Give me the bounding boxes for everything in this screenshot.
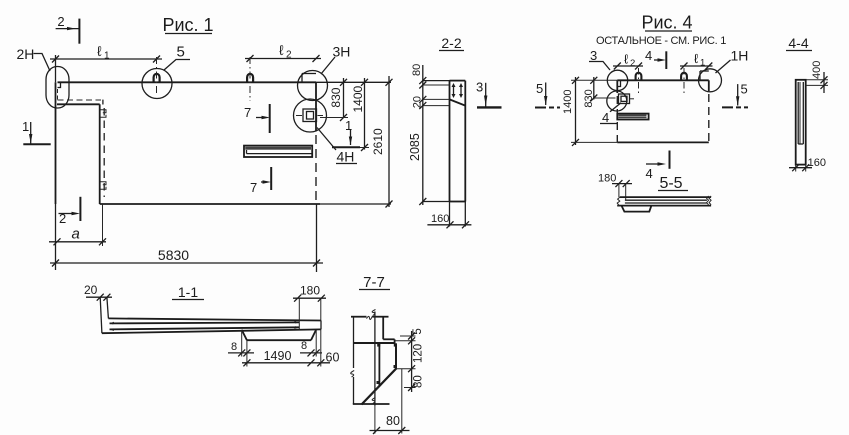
section mark 1 (mid) — [332, 118, 360, 147]
svg-text:2Н: 2Н — [17, 46, 35, 62]
dimension 1400 (fig1) — [350, 78, 369, 151]
svg-text:830: 830 — [329, 87, 343, 107]
section mark 3 — [476, 80, 502, 108]
svg-text:120: 120 — [413, 344, 425, 363]
dimension 400 (4-4) — [806, 61, 828, 93]
svg-text:3: 3 — [476, 80, 483, 95]
4-4 body — [796, 80, 806, 165]
svg-text:1: 1 — [700, 58, 705, 69]
section mark 1 (left) — [22, 119, 51, 144]
svg-text:60: 60 — [326, 351, 340, 365]
detail circle 3 (fig4) — [607, 70, 627, 90]
title 4-4 — [786, 35, 812, 51]
key (trapezoid) under 5-5 bar — [622, 206, 652, 212]
svg-text:4: 4 — [645, 48, 652, 63]
svg-text:5: 5 — [177, 44, 185, 61]
dimension 20 (1-1) — [84, 283, 112, 301]
svg-text:7-7: 7-7 — [363, 274, 385, 291]
svg-text:5: 5 — [536, 81, 543, 96]
channel (embedded duct) — [244, 146, 312, 157]
detail circle 3Н — [298, 71, 328, 101]
dimension l2 (fig4) — [613, 52, 643, 70]
svg-text:4: 4 — [646, 166, 653, 181]
quarter step solid lines — [57, 103, 100, 105]
loop centerline — [156, 57, 158, 96]
svg-text:1400: 1400 — [562, 90, 574, 114]
top-right corner step — [302, 73, 316, 75]
detail circle 4 (fig4) — [607, 91, 627, 111]
panel bottom edge — [100, 203, 320, 205]
svg-text:2-2: 2-2 — [441, 35, 461, 51]
svg-text:Рис. 4: Рис. 4 — [641, 13, 692, 33]
svg-text:ℓ: ℓ — [279, 42, 284, 58]
title 2-2 — [439, 35, 464, 51]
label 3 with leader (fig4) — [589, 48, 610, 70]
label 4 with leader (fig4 detail) — [600, 103, 621, 125]
title Рис.4 — [596, 13, 726, 48]
dimension 160 (4-4) — [789, 157, 826, 172]
7-7 body — [351, 310, 396, 406]
svg-text:8: 8 — [301, 340, 307, 352]
svg-text:ℓ: ℓ — [97, 43, 102, 59]
dimension 180 (1-1) — [293, 284, 326, 330]
loops in section — [452, 83, 464, 98]
svg-text:1: 1 — [104, 51, 110, 62]
top-left corner step — [58, 82, 61, 87]
lifting loop (second) — [247, 74, 253, 82]
detail circle 5 — [142, 69, 172, 99]
title Рис.1 — [162, 15, 213, 35]
loop centerline — [249, 57, 251, 101]
rebar dots (7-7) — [377, 344, 397, 384]
section mark 4 (bottom, fig4) — [646, 151, 670, 182]
7-7 channel profile — [362, 343, 397, 404]
corner step top-left fig4 — [617, 80, 620, 86]
title 5-5 — [658, 175, 688, 192]
section mark 7 (upper) — [244, 104, 270, 133]
svg-text:а: а — [72, 226, 80, 243]
svg-text:1: 1 — [22, 119, 29, 134]
dimension 830 (fig1) — [320, 78, 348, 121]
dimension l2 — [245, 42, 321, 62]
svg-text:830: 830 — [583, 89, 595, 107]
lifting loop (left, detail 5) — [154, 74, 160, 82]
hidden edge dashed vertical at notch — [103, 108, 105, 197]
svg-text:2: 2 — [286, 50, 292, 61]
anchor detail in circle 4 — [619, 94, 635, 104]
detail oval 2Н — [46, 67, 69, 109]
label 4Н with leader — [317, 128, 357, 165]
svg-text:1400: 1400 — [351, 85, 365, 112]
dimension 8 (left, 1-1) — [228, 330, 254, 367]
svg-text:7: 7 — [250, 180, 257, 195]
lifting loop fig4 right — [681, 73, 687, 81]
svg-text:1-1: 1-1 — [178, 284, 198, 300]
keyway mark upper — [100, 110, 106, 118]
keyway mark lower — [100, 182, 106, 190]
svg-text:5830: 5830 — [158, 247, 189, 263]
svg-text:80: 80 — [413, 375, 425, 388]
svg-text:80: 80 — [386, 414, 400, 428]
panel right edge (solid then hidden) — [315, 82, 317, 131]
section mark 5 (right) — [722, 82, 748, 108]
dimension 1400 (fig4) — [562, 77, 617, 146]
channel fig4 — [617, 114, 648, 120]
svg-text:2610: 2610 — [371, 128, 385, 155]
svg-text:8: 8 — [231, 341, 237, 353]
dimension l1 (fig4) — [680, 51, 713, 70]
section mark 4 (top, fig4) — [645, 48, 666, 69]
label 3Н with leader — [321, 44, 350, 75]
label 1Н with leader (fig4) — [716, 48, 749, 74]
svg-text:ОСТАЛЬНОЕ - СМ. РИС. 1: ОСТАЛЬНОЕ - СМ. РИС. 1 — [596, 35, 726, 47]
hidden edge (dashed) in left quarter — [57, 89, 59, 100]
title 1-1 — [172, 284, 204, 300]
7-7 bottom dimension 80 — [370, 369, 410, 434]
7-7 right dimensions 5/120/80 — [395, 328, 425, 392]
dimension 5830 — [50, 247, 323, 267]
svg-text:4: 4 — [602, 110, 609, 125]
detail circle 1Н (fig4) — [699, 69, 722, 92]
2-2 body — [423, 81, 466, 227]
dimension 2610 — [371, 76, 393, 208]
section mark 5 (left) — [535, 81, 560, 108]
dimension 180 (5-5) — [598, 173, 632, 201]
svg-text:4Н: 4Н — [337, 149, 355, 165]
dimension 160 (2-2) — [427, 213, 471, 228]
svg-text:4-4: 4-4 — [788, 35, 808, 51]
svg-text:180: 180 — [598, 173, 616, 185]
svg-text:20: 20 — [84, 283, 98, 297]
svg-text:2: 2 — [630, 58, 635, 69]
section mark 2 (bottom) — [59, 197, 81, 226]
dimension 1490 (1-1) — [242, 349, 330, 366]
svg-text:160: 160 — [431, 213, 449, 225]
dimension 8 (right, 1-1) — [300, 330, 322, 357]
svg-text:3: 3 — [590, 48, 597, 63]
svg-text:3Н: 3Н — [333, 44, 351, 60]
dimension l1 — [50, 43, 162, 63]
svg-text:1490: 1490 — [264, 349, 292, 363]
svg-text:5-5: 5-5 — [659, 175, 682, 192]
panel left edge / extension — [55, 55, 57, 82]
2-2 left dimension line (80/20/2085) — [408, 64, 426, 205]
corner step top-right fig4 — [700, 71, 709, 80]
dimension 60 (1-1) — [317, 329, 339, 366]
dimension a — [49, 204, 106, 246]
section mark 2 (top) — [56, 14, 80, 44]
lifting loop fig4 left — [636, 73, 642, 81]
svg-text:80: 80 — [411, 64, 423, 76]
label 2Н with leader — [17, 46, 51, 71]
panel outline fig4 — [617, 80, 709, 142]
svg-text:20: 20 — [412, 96, 424, 108]
1-1 slab body — [100, 297, 321, 333]
panel top edge — [58, 81, 317, 83]
slot recess under slab (1-1) — [242, 330, 317, 341]
5-5 bar body — [617, 196, 711, 206]
svg-text:180: 180 — [300, 284, 320, 298]
svg-text:400: 400 — [811, 61, 823, 79]
detail circle 4Н — [294, 99, 327, 132]
title 7-7 — [359, 274, 390, 291]
dimension 830 (fig4) — [583, 77, 616, 108]
channel end arrows (1-1) — [110, 321, 300, 331]
anchor detail in 4Н — [296, 109, 323, 122]
svg-text:7: 7 — [244, 105, 251, 120]
svg-text:5: 5 — [412, 328, 424, 334]
svg-text:2: 2 — [57, 14, 64, 29]
section mark 7 (lower) — [250, 167, 271, 195]
svg-text:Рис. 1: Рис. 1 — [162, 15, 213, 35]
svg-text:1Н: 1Н — [731, 48, 749, 64]
label 5 with leader — [164, 44, 190, 71]
svg-text:160: 160 — [808, 157, 826, 169]
svg-text:5: 5 — [741, 82, 748, 97]
svg-text:2085: 2085 — [408, 133, 422, 161]
